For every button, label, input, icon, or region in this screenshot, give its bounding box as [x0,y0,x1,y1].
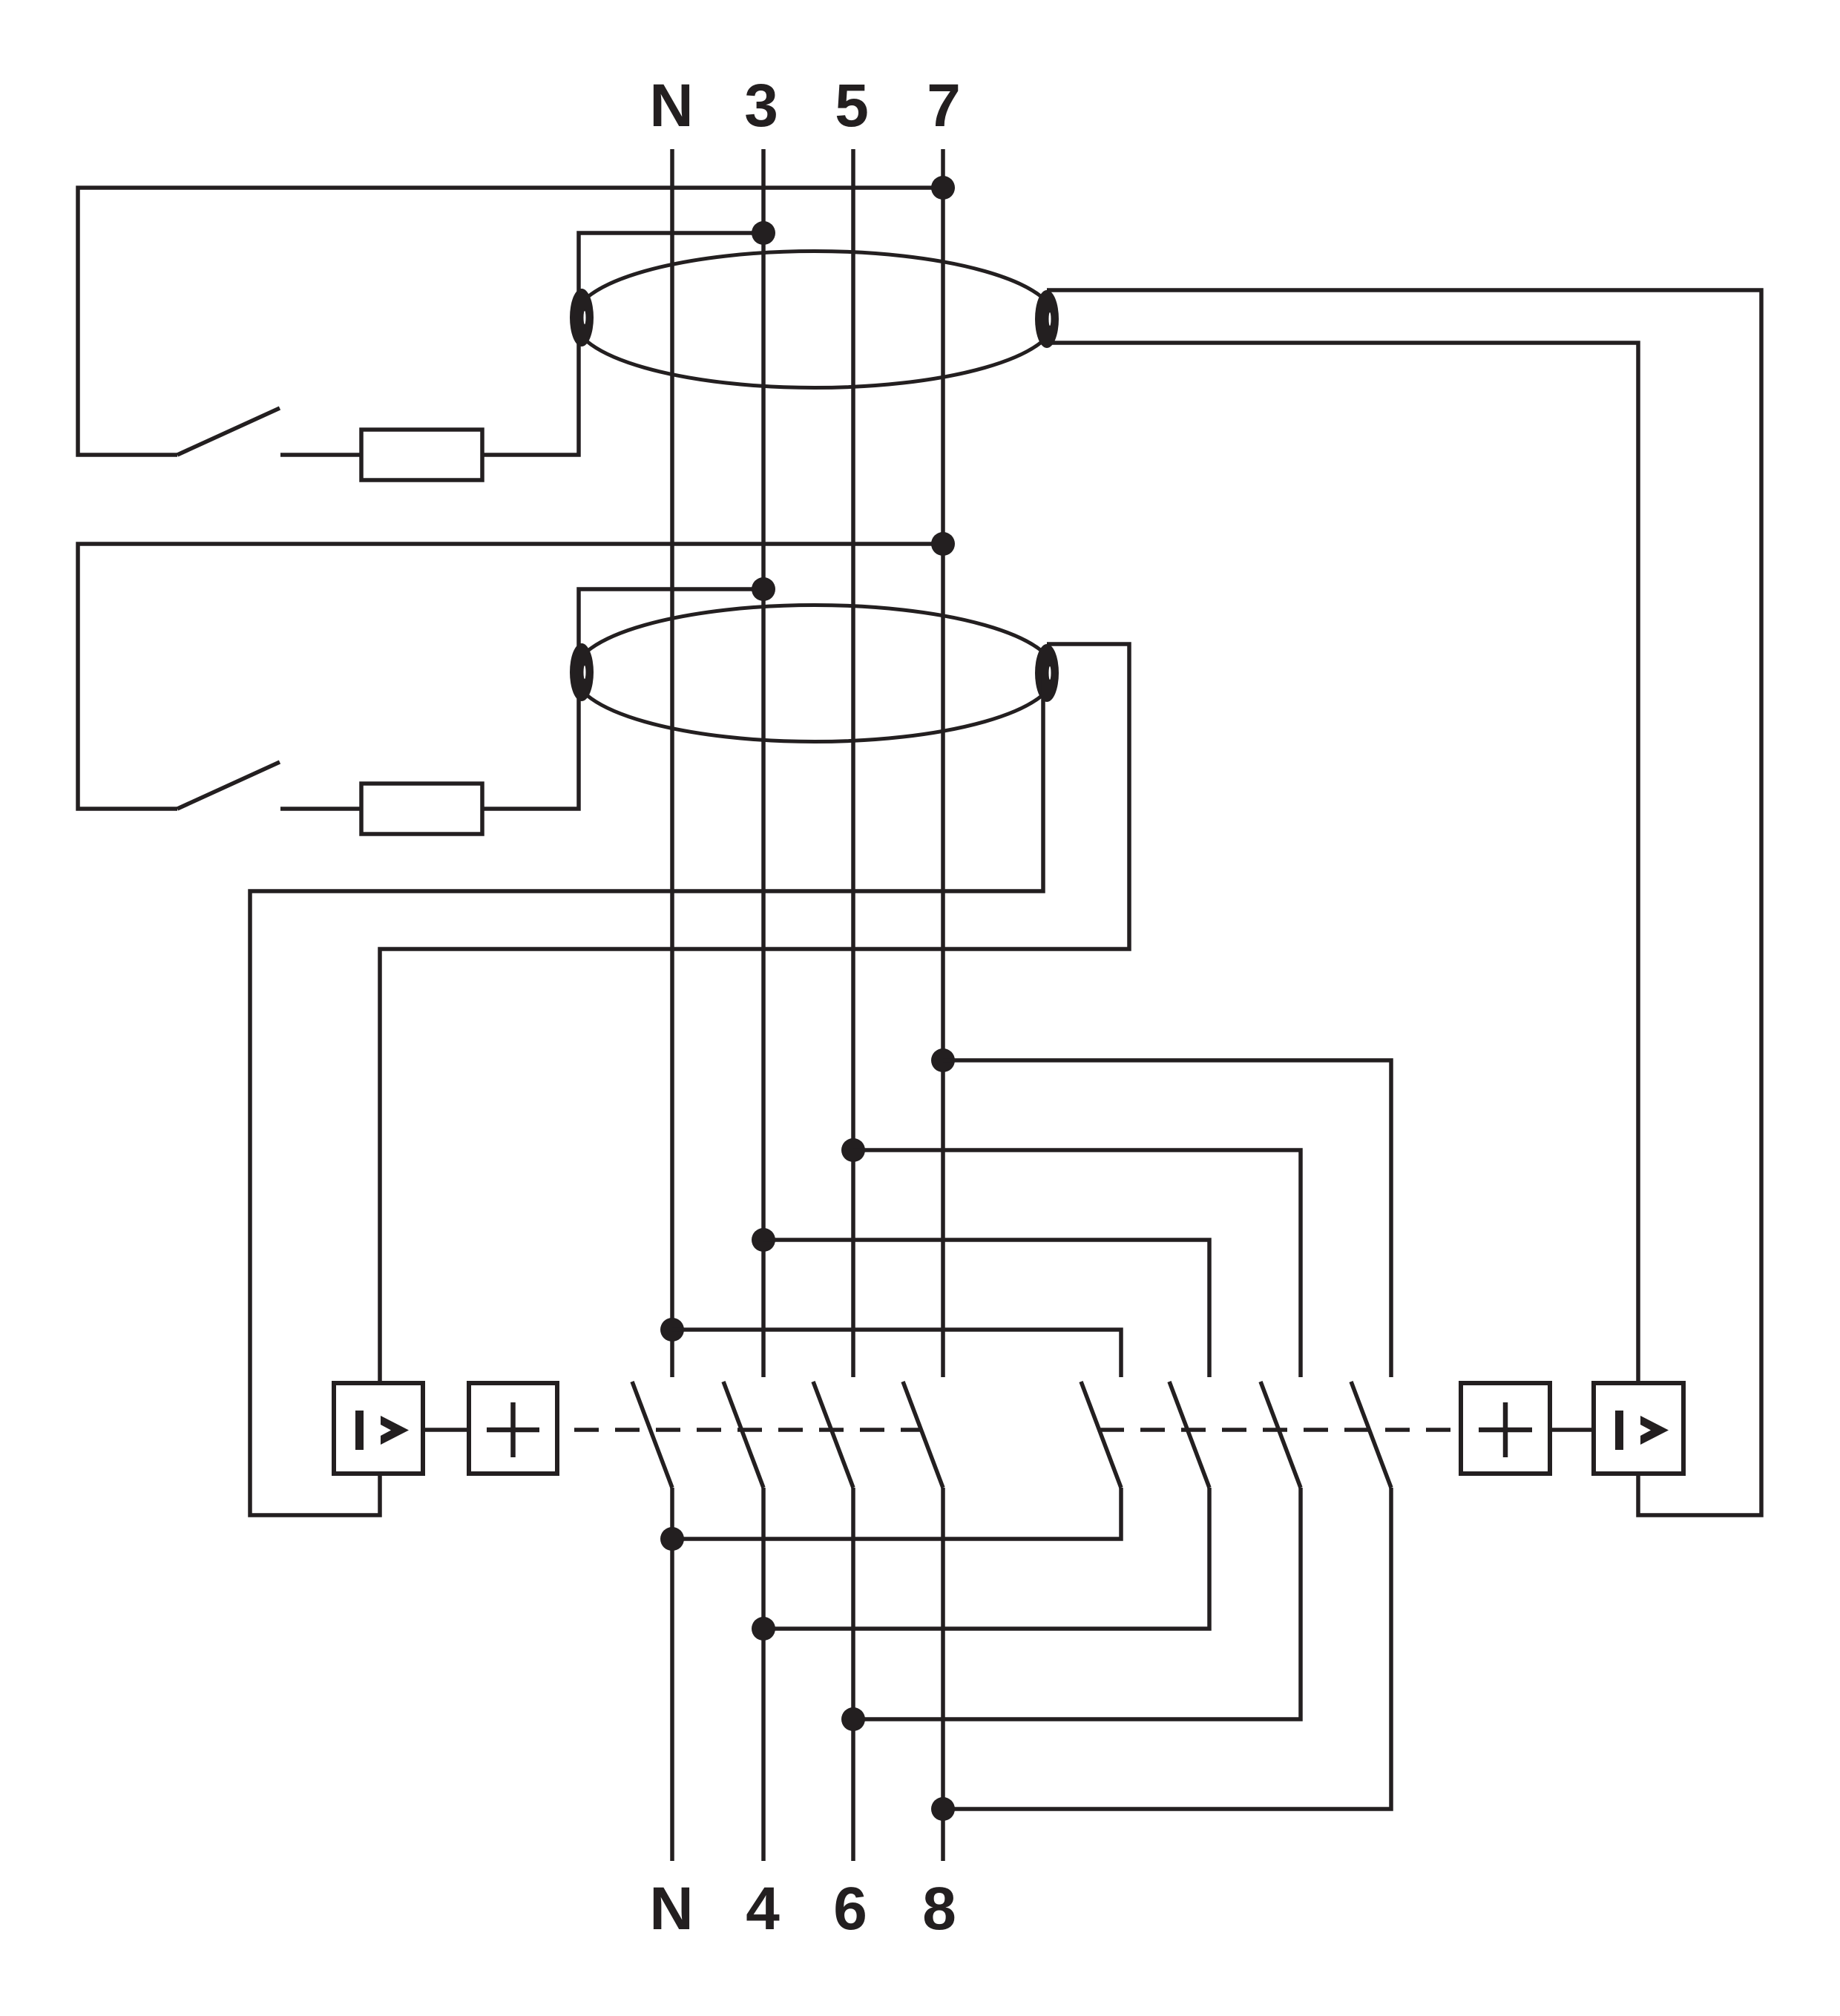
contact 3 blade (pole 5-6) [813,1382,853,1488]
current transformer W2 left winding [570,643,594,701]
current transformer W1 right winding [1035,290,1059,348]
svg-text:7: 7 [927,72,961,139]
wire: test circuit 1 top rail from line 7 [78,188,943,455]
node: junction on line 6 at y2317 [841,1707,865,1731]
relay K1 trip solenoid I> box (left) [334,1383,423,1474]
svg-text:3: 3 [744,72,778,139]
contact 4 blade (pole 7-8) [903,1382,943,1488]
mechanism M1 cross vertical [510,1402,516,1457]
wire: resistor R2 through toroid W2 to line 3 [482,589,763,809]
contact 1 blade (pole N) [632,1382,672,1488]
current transformer W2 right winding [1035,644,1059,702]
svg-text:N: N [649,1875,693,1943]
node: junction on line 3 at y1671 [752,1228,775,1252]
mechanism M1 cross horizontal [487,1428,539,1433]
contact 6 blade [1169,1382,1209,1488]
wire: N line to contact 5 upper terminal [672,1330,1121,1377]
node: junction on line 8 at y2438 [931,1797,955,1821]
wire: contact 8 lower terminal to line 8 [943,1488,1391,1809]
wire: W2 secondary lower to left outer drop [250,673,1043,1515]
wire: M2 to relay K2 [1550,1428,1594,1432]
mechanical linkage dashed line (right contact group) [1100,1428,1461,1432]
node: junction on line 7 at y1429 [931,1048,955,1072]
current transformer W2 toroid core [574,605,1055,742]
contact 7 blade [1261,1382,1301,1488]
mechanism M1 cross box (left) [469,1383,557,1474]
resistor R1 (test resistor) [361,430,482,480]
switch S2 (test button 2) blade [177,762,280,809]
contact 2 blade (pole 3-4) [723,1382,763,1488]
svg-text:N: N [649,72,693,139]
wire: contact 7 lower terminal to line 6 [853,1488,1301,1719]
node: junction on line 7 at y253 [931,176,955,200]
relay K1 > glyph [381,1416,409,1445]
current transformer W1 toroid core [574,252,1055,388]
wire: W1 secondary upper to right outer drop [1047,290,1761,1515]
wire: pole 3 upper vertical [761,149,766,1377]
mechanism M2 cross box (right) [1461,1383,1550,1474]
svg-text:5: 5 [835,72,869,139]
wire: K1 to mechanism M1 [423,1428,469,1432]
wire: contact 5 lower terminal to N line [672,1488,1121,1539]
svg-text:4: 4 [746,1875,780,1943]
wire: switch S2 to resistor R2 [280,807,361,811]
node: junction on N line at y2074 [660,1527,684,1551]
node: junction on line 3 at y314 [752,221,775,245]
contact 8 blade [1351,1382,1391,1488]
resistor R2 (test resistor) [361,784,482,834]
relay K2 trip solenoid I> box (right) [1594,1383,1683,1474]
node: junction on line 7 at y733 [931,532,955,556]
wire: W1 secondary lower to relay K2 input [1047,343,1638,1383]
wire: line 7 to contact 8 upper terminal [943,1060,1391,1377]
node: junction on N line at y1792 [660,1318,684,1342]
wire: pole 7 upper vertical [941,149,945,1377]
mechanism M2 cross horizontal [1479,1428,1532,1433]
contact 5 blade [1081,1382,1121,1488]
node: junction on line 5 at y1550 [841,1138,865,1162]
relay K1 I glyph [355,1411,364,1450]
mechanical linkage dashed line (left contact group) [574,1428,921,1432]
mechanism M2 cross vertical [1503,1402,1508,1457]
wire: pole N upper vertical [670,149,674,1377]
wire: line 5 to contact 7 upper terminal [853,1150,1301,1377]
svg-text:6: 6 [833,1875,867,1943]
node: junction on line 4 at y2195 [752,1617,775,1641]
wire: pole 8 lower vertical [941,1488,945,1861]
svg-text:8: 8 [922,1875,956,1943]
switch S1 (test button 1) blade [177,408,280,455]
current transformer W1 left winding [570,289,594,347]
wire: contact 6 lower terminal to line 4 [763,1488,1209,1629]
wire: pole 4 lower vertical [761,1488,766,1861]
wire: switch S1 to resistor R1 [280,453,361,457]
wire: pole 6 lower vertical [851,1488,855,1861]
node: junction on line 3 at y794 [752,577,775,601]
relay K2 > glyph [1640,1416,1669,1445]
wire: line 3 to contact 6 upper terminal [763,1240,1209,1377]
wire: pole N lower vertical [670,1488,674,1861]
wire: test circuit 2 top rail from line 7 [78,544,943,809]
wire: pole 5 upper vertical [851,149,855,1377]
wire: W2 secondary upper to relay K1 input [380,644,1129,1383]
relay K2 I glyph [1615,1411,1623,1450]
wire: resistor R1 through toroid W1 to line 3 [482,233,763,455]
